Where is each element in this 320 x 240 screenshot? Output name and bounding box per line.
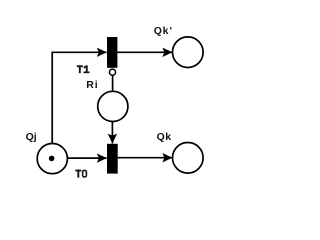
transition T1	[107, 37, 117, 68]
arc Qj to T1 (wire up then right, arrowhead into T1)	[52, 52, 106, 143]
svg-text:Qj: Qj	[26, 131, 37, 143]
arc T0 to Qk (wire, arrowhead into Qk)	[118, 157, 173, 159]
place Ri	[98, 91, 128, 121]
label Qj	[26, 131, 37, 143]
place Qj	[37, 144, 67, 174]
label Qk'	[154, 25, 173, 37]
place Qk	[173, 143, 204, 174]
svg-text:Ri: Ri	[86, 79, 98, 91]
arc Ri to T0 (wire down, arrowhead into T0)	[111, 122, 113, 144]
arc T1 to Qk' (wire, arrowhead into Qk')	[117, 51, 172, 53]
svg-text:Qk': Qk'	[154, 25, 173, 37]
place Qk'	[173, 37, 204, 68]
label T1 (drawn glyphs)	[77, 65, 90, 73]
transition T0	[107, 144, 118, 174]
svg-text:Qk: Qk	[157, 131, 172, 143]
label Qk	[157, 131, 172, 143]
token in Qj	[49, 156, 55, 162]
arc Qj to T0 (wire, arrowhead into T0)	[68, 157, 107, 159]
label Ri	[86, 79, 98, 91]
label T0 (drawn glyphs)	[75, 170, 86, 178]
inhibitor arc Ri to T1 (small circle at transition)	[109, 69, 115, 91]
